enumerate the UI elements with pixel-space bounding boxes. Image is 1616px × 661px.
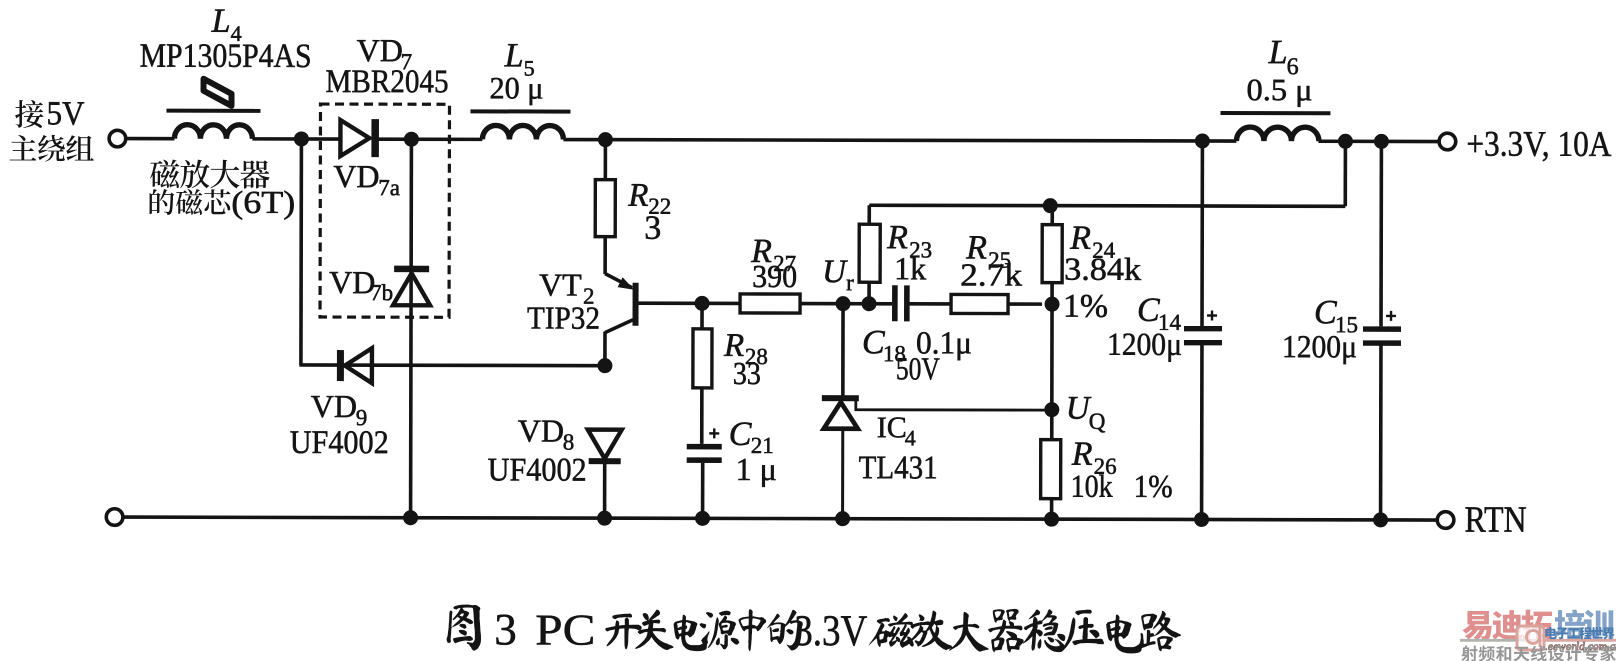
svg-text:L: L: [504, 37, 524, 74]
transistor VT2 collector: [605, 320, 633, 333]
resistor R25 2.7k: [951, 294, 1008, 313]
svg-text:IC: IC: [877, 411, 907, 444]
node junction R25-R24: [1045, 297, 1060, 312]
svg-text:1200μ: 1200μ: [1107, 326, 1182, 362]
svg-text:(6T): (6T): [231, 184, 295, 220]
wire top rail: [124, 137, 174, 141]
terminal bottom-left: [106, 509, 123, 526]
svg-text:VT: VT: [539, 267, 582, 303]
terminal input 5V: [109, 130, 126, 147]
label 接5V: [15, 100, 43, 128]
svg-text:VD: VD: [333, 158, 379, 194]
core bar of L4: [166, 109, 260, 113]
node UQ junction: [1044, 402, 1059, 417]
svg-text:MP1305P4AS: MP1305P4AS: [140, 38, 312, 75]
svg-text:C: C: [1137, 292, 1160, 329]
resistor R26 10k 1%: [1050, 410, 1054, 440]
node junction R23 bottom: [862, 296, 877, 311]
svg-text:TL431: TL431: [859, 450, 938, 486]
inductor L4 MP1305P4AS: [174, 125, 252, 139]
capacitor C21 1u: [687, 444, 722, 450]
svg-text:VD: VD: [329, 264, 375, 300]
node junction base-R28: [695, 296, 710, 311]
svg-text:3.3V: 3.3V: [794, 606, 867, 655]
watermark underline: [1460, 639, 1524, 642]
wire Ur to C18: [843, 302, 892, 306]
svg-text:U: U: [822, 254, 848, 290]
svg-text:+3.3V, 10A: +3.3V, 10A: [1466, 124, 1611, 164]
node junction L5-R22: [598, 132, 613, 147]
dashed box VD7 MBR2045: [320, 104, 449, 317]
node junction R26 bottom rail: [1044, 512, 1059, 527]
node junction C15 top: [1374, 134, 1389, 149]
svg-text:C: C: [1314, 294, 1337, 331]
wire base of VT2 to R27: [638, 301, 740, 305]
svg-text:C: C: [729, 416, 752, 453]
IC TL431 triangle: [824, 402, 858, 429]
node junction C14 bottom rail: [1194, 512, 1209, 527]
svg-text:VD: VD: [357, 32, 403, 68]
svg-text:50V: 50V: [896, 350, 940, 386]
svg-text:1%: 1%: [1063, 289, 1108, 325]
capacitor C21 polarized plus: [709, 428, 719, 438]
svg-text:L: L: [1268, 34, 1288, 71]
wire sense tap down: [1343, 141, 1347, 206]
label cike 磁放大器: [150, 159, 179, 188]
label 主绕组: [9, 135, 36, 161]
svg-text:10k: 10k: [1071, 468, 1113, 504]
diode VD9: [337, 350, 344, 381]
capacitor C14 plus sign: [1207, 310, 1217, 320]
wire Ur down to TL431: [841, 304, 845, 396]
svg-text:VD: VD: [311, 388, 357, 424]
resistor R23 1k: [867, 282, 871, 303]
node junction VD7a-VD7b: [404, 132, 419, 147]
IC TL431 reference hook wire: [856, 400, 1052, 410]
svg-text:20 μ: 20 μ: [489, 70, 543, 105]
svg-text:1200μ: 1200μ: [1282, 328, 1357, 364]
svg-text:5V: 5V: [46, 95, 84, 132]
capacitor C15 plus sign: [1386, 311, 1396, 321]
wire down to UQ: [1050, 304, 1054, 409]
wire bottom rail RTN: [123, 517, 1439, 520]
svg-text:3: 3: [494, 604, 517, 654]
caption 图3 PC开关电源中的3.3V磁放大器稳压电路: [447, 604, 1181, 656]
svg-text:VD: VD: [518, 412, 564, 448]
svg-text:1 μ: 1 μ: [736, 451, 777, 487]
svg-text:0.5 μ: 0.5 μ: [1246, 72, 1312, 107]
svg-text:UF4002: UF4002: [290, 425, 389, 461]
core bar of L5: [470, 109, 570, 113]
resistor R27 390: [740, 294, 800, 313]
svg-text:7b: 7b: [370, 280, 393, 305]
svg-text:33: 33: [733, 355, 761, 391]
wire collector down: [603, 332, 607, 366]
svg-text:4: 4: [905, 425, 916, 450]
svg-text:390: 390: [752, 258, 797, 294]
svg-text:L: L: [211, 3, 231, 40]
terminal +3.3V output: [1439, 133, 1456, 150]
svg-text:C: C: [862, 324, 885, 361]
svg-text:UF4002: UF4002: [488, 452, 587, 488]
watermark 射频和天线设计专家: [1461, 646, 1477, 661]
watermark eeworld logo mark: [1517, 626, 1544, 650]
saturable core slash symbol: [203, 79, 231, 106]
svg-text:8: 8: [563, 430, 575, 455]
label 的磁芯(6T): [150, 189, 175, 215]
diode VD8: [588, 430, 622, 459]
inductor L5 20u: [482, 125, 563, 139]
wire VD9 branch horizontal: [299, 363, 604, 367]
node junction C15 bottom rail: [1373, 512, 1388, 527]
svg-text:2.7k: 2.7k: [960, 256, 1022, 292]
terminal RTN output: [1437, 512, 1454, 529]
transistor VT2 base bar: [633, 283, 639, 326]
svg-text:3: 3: [644, 210, 661, 247]
node junction VD7b bottom rail: [403, 510, 418, 525]
watermark 电子工程世界: [1545, 627, 1556, 639]
wire vertical from L4 junction down to VD9 line: [299, 139, 303, 365]
svg-text:1k: 1k: [894, 250, 926, 286]
svg-text:1%: 1%: [1134, 468, 1173, 504]
svg-text:r: r: [846, 270, 854, 295]
capacitor C15 1200u: [1379, 141, 1383, 326]
svg-text:R: R: [627, 178, 648, 214]
core bar of L6: [1220, 111, 1330, 115]
node junction R24 top: [1043, 198, 1058, 213]
node junction VD8 bottom rail: [597, 511, 612, 526]
svg-text:7a: 7a: [378, 175, 400, 200]
node junction C21 bottom rail: [695, 511, 710, 526]
node junction collector-VD9-VD8: [597, 358, 612, 373]
wire vertical VD7b branch: [409, 139, 413, 517]
svg-text:3.84k: 3.84k: [1064, 251, 1141, 287]
capacitor C14 1200u: [1200, 141, 1204, 326]
node junction TL431 bottom rail: [835, 511, 850, 526]
resistor R24 3.84k: [1042, 225, 1062, 283]
wire feedback sense line: [869, 205, 1345, 206]
svg-text:PC: PC: [535, 605, 595, 654]
svg-text:MBR2045: MBR2045: [326, 64, 449, 100]
capacitor C18 0.1u 50V: [892, 285, 898, 321]
resistor R22 3: [604, 140, 608, 180]
svg-text:Q: Q: [1089, 409, 1106, 434]
node junction C14 top: [1195, 133, 1210, 148]
node Ur junction: [836, 296, 851, 311]
inductor L6 0.5u: [1236, 127, 1319, 141]
node junction L6 sense tap: [1338, 134, 1353, 149]
node junction L4-VD7a: [294, 131, 309, 146]
IC TL431 cathode bar: [822, 395, 859, 401]
watermark logo 易迪拓: [1462, 611, 1491, 640]
diode VD7a: [340, 120, 369, 156]
svg-text:RTN: RTN: [1465, 500, 1527, 541]
svg-text:TIP32: TIP32: [527, 299, 600, 335]
transistor VT2 emitter: [605, 274, 632, 288]
watermark logo 培训: [1555, 609, 1586, 640]
diode VD7b: [394, 266, 429, 273]
resistor R28 33: [700, 303, 704, 328]
